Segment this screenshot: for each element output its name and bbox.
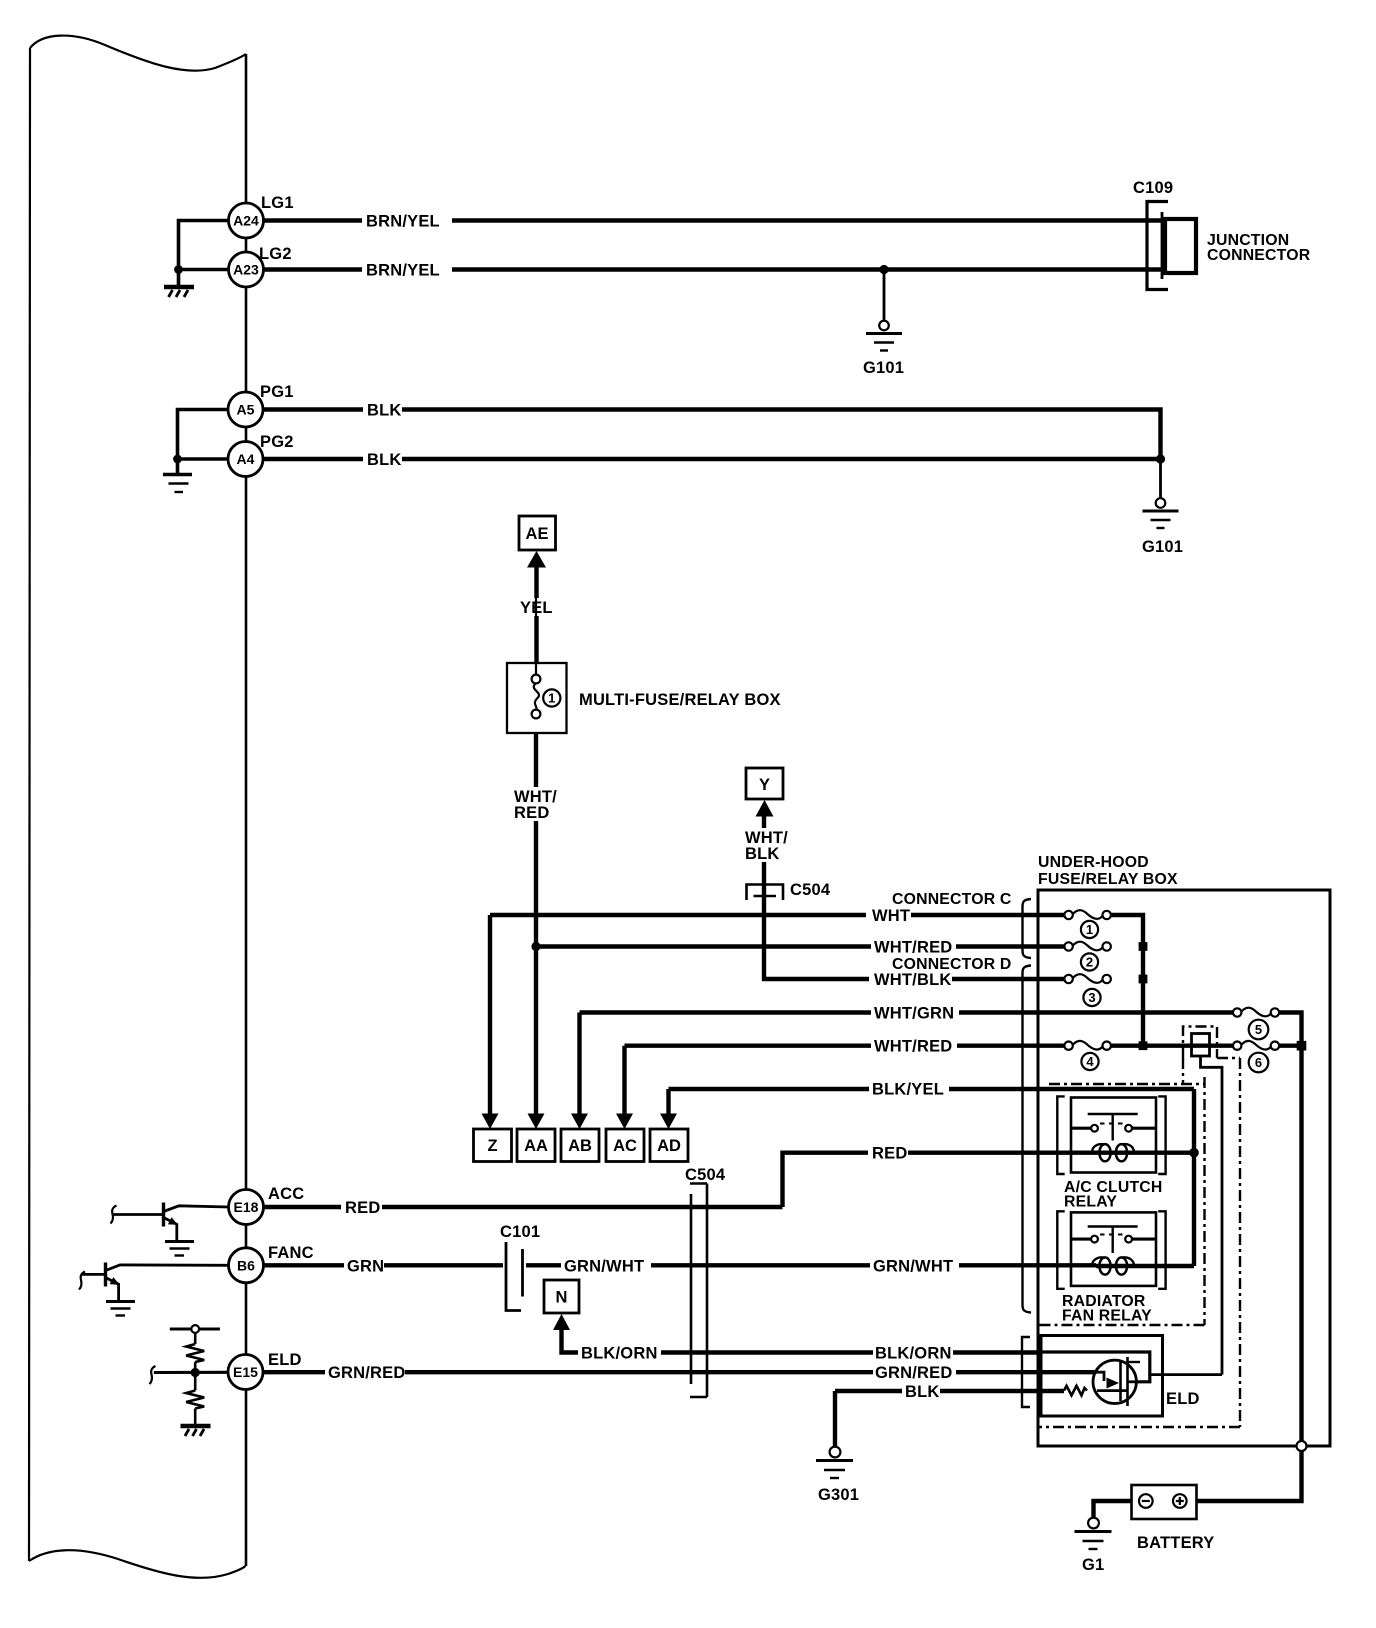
svg-text:GRN/RED: GRN/RED [875,1364,953,1382]
svg-text:GRN/WHT: GRN/WHT [564,1257,644,1275]
battery [1132,1485,1215,1552]
resistor chain (ELD sense) [170,1325,220,1424]
svg-text:G1: G1 [1082,1556,1104,1574]
svg-text:C109: C109 [1133,179,1173,197]
svg-text:1: 1 [1086,922,1093,937]
under-hood fuse/relay box [1038,890,1330,1446]
wire BRN/YEL (A23 row) [264,267,1166,271]
circled 2 [1081,953,1098,970]
svg-text:ELD: ELD [1166,1390,1200,1408]
connector A24 [229,203,264,238]
A/C relay coil [1092,1144,1194,1161]
ELD internal loop [1041,1352,1150,1382]
svg-text:Z: Z [487,1137,497,1155]
junction dot A23 stub [174,265,183,274]
junction connector C109 [1133,179,1311,290]
junction dot (resistor/E15 row) [191,1368,200,1377]
svg-text:PG2: PG2 [260,433,294,451]
svg-text:BLK: BLK [745,845,780,863]
svg-text:GRN/RED: GRN/RED [328,1364,406,1382]
bracket connector D [1023,966,1032,1313]
fuse 1 [1064,910,1111,919]
svg-text:G301: G301 [818,1486,859,1504]
connector E18 [229,1190,264,1225]
wire WHT down to Z [488,915,492,1114]
svg-text:G101: G101 [1142,538,1183,556]
fuse bus [1111,915,1143,1046]
svg-text:RED: RED [872,1145,907,1163]
connector box AA [517,1129,555,1162]
svg-text:E18: E18 [234,1199,259,1215]
svg-text:A23: A23 [233,262,259,278]
junction dot (A23 row to G101) [879,265,888,274]
svg-text:RED: RED [514,804,549,822]
svg-text:2: 2 [1086,955,1093,970]
svg-text:B6: B6 [237,1257,255,1273]
wire to ground G101 right [1159,459,1162,498]
wire BLK/YEL (row 6) [669,1087,1195,1091]
connector B6 [229,1248,264,1283]
svg-text:BLK: BLK [367,402,402,420]
connector box AB [561,1129,599,1162]
radiator fan relay left bracket [1057,1211,1064,1289]
svg-text:BATTERY: BATTERY [1137,1534,1214,1552]
wire battery positive [1197,1451,1302,1501]
bracket ELD connector [1022,1337,1030,1407]
ELD unit box [1041,1336,1163,1417]
junction dot A4 stub [173,455,182,464]
circled 4 [1081,1053,1098,1070]
dash-dot relay enclosure [1049,1083,1205,1085]
torn harness sheet edge [29,36,246,1578]
wire WHT/GRN (row 4) [580,1010,1234,1014]
svg-text:ACC: ACC [268,1185,304,1203]
connector A5 [228,392,263,427]
fan relay contact [1071,1227,1156,1254]
svg-text:1: 1 [548,691,555,706]
circled 1 (multi-fuse) [543,689,560,706]
inline connector C504 (upper) [747,881,831,900]
svg-text:UNDER-HOOD: UNDER-HOOD [1038,854,1149,871]
circled 1 [1081,921,1098,938]
wire ground stub A5/A4 [178,410,229,474]
junction dot bus/fuse3 [1139,975,1148,984]
small relay element [1192,1034,1210,1057]
svg-text:LG1: LG1 [261,194,294,212]
junction dot bus/WHT-RED row [1139,1041,1148,1050]
svg-text:BLK: BLK [367,451,402,469]
fuse symbol 1 (multi-fuse box) [532,566,541,718]
earth ground (A4) [163,475,192,493]
svg-text:AB: AB [568,1137,592,1155]
transistor Q2 (FANC driver) [79,1263,229,1301]
svg-text:G101: G101 [863,359,904,377]
ground G101 (right) [1142,498,1183,556]
junction dot (WHT/RED row) [531,942,540,951]
svg-text:N: N [556,1289,568,1307]
svg-text:E15: E15 [233,1364,258,1380]
wire RED (E18 row) [264,1205,783,1209]
junction dot (A4 row to G101) [1156,454,1165,463]
svg-text:BLK: BLK [905,1383,940,1401]
svg-text:GRN: GRN [347,1257,384,1275]
ELD mosfet [1096,1357,1140,1406]
A/C relay contact [1071,1114,1156,1141]
wire RED (row 7, to relay coil) [783,1153,1097,1207]
wire WHT/BLK (to Y) [764,815,869,979]
wire YEL [534,566,538,663]
junction dot (right bus) [1297,1041,1307,1051]
A/C clutch relay box [1071,1098,1156,1173]
arrow to AD [660,1114,677,1130]
svg-text:RELAY: RELAY [1064,1194,1117,1211]
wire GRN/WHT [526,1263,1096,1267]
transistor Q1 (ACC driver) [111,1203,229,1241]
chassis ground (resistor chain) [181,1426,211,1436]
earth ground (Q2) [106,1302,135,1316]
svg-text:WHT/BLK: WHT/BLK [874,971,951,989]
dash-dot ELD enclosure [1239,1058,1241,1427]
connector A23 [229,252,264,287]
svg-text:BRN/YEL: BRN/YEL [366,262,440,280]
wire BLK/YEL vertical to relay coils [1192,1089,1196,1266]
inline connector C504 (lower) [685,1166,726,1397]
wire BLK/ORN (to N) [562,1329,1042,1353]
connector box AD [650,1129,688,1162]
svg-text:WHT/GRN: WHT/GRN [874,1005,954,1023]
wire small relay to ELD [1201,1056,1223,1375]
svg-text:ELD: ELD [268,1351,302,1369]
wire WHT/RED (from multi-fuse down) [534,733,538,1114]
arrow to AA [528,1114,545,1130]
fuse 3 [1064,974,1111,983]
svg-text:BLK/ORN: BLK/ORN [581,1345,658,1363]
svg-text:A24: A24 [233,213,259,229]
wire ELD output [1150,1373,1222,1376]
junction dot bus/fuse2 [1139,942,1148,951]
connector box Y [746,768,783,799]
ELD resistor [1064,1386,1087,1396]
svg-text:BRN/YEL: BRN/YEL [366,213,440,231]
wire BLK (A4 row) [263,457,1161,461]
arrow to Z [482,1114,499,1130]
multi-fuse/relay box [507,663,567,733]
ground G101 (left) [863,321,904,377]
wire GRN (B6 row) [264,1263,504,1267]
wire fuse6 to right bus [1279,1043,1301,1047]
arrow to N [553,1314,570,1330]
connector box N [544,1280,579,1313]
arrow to AB [571,1114,588,1130]
wire BLK (A5 row) [263,410,1161,460]
wire trunk (control module edge) [245,54,248,1566]
svg-text:3: 3 [1088,990,1095,1005]
svg-text:A4: A4 [237,451,255,467]
svg-text:C504: C504 [685,1166,726,1184]
wire WHT/BLK (row 3) [952,977,1065,981]
circled 5 [1249,1020,1269,1040]
small relay (dash-dot enclosure) [1183,1027,1217,1059]
wire to ground G301 [833,1391,837,1447]
connector box AC [606,1129,644,1162]
chassis ground (A23) [164,287,194,297]
svg-text:CONNECTOR: CONNECTOR [1207,247,1311,264]
svg-text:A5: A5 [237,402,255,418]
radiator fan relay right bracket [1158,1211,1165,1289]
svg-text:AD: AD [657,1137,681,1155]
svg-text:WHT: WHT [872,907,910,925]
wire to ground G101 [883,270,886,322]
ground G301 [816,1447,859,1504]
arrow to Y [756,800,774,817]
svg-text:CONNECTOR D: CONNECTOR D [892,956,1012,973]
connector box AE [519,516,556,550]
wire battery negative [1094,1501,1132,1518]
arrow to AC [616,1114,633,1130]
svg-text:AC: AC [613,1137,637,1155]
connector E15 [228,1355,263,1390]
svg-text:LG2: LG2 [259,245,292,263]
svg-text:6: 6 [1255,1055,1262,1070]
circled 3 [1083,989,1100,1006]
svg-text:WHT/RED: WHT/RED [874,1038,952,1056]
svg-text:BLK/YEL: BLK/YEL [872,1081,944,1099]
wire GRN/RED (E15 row) [263,1370,1100,1374]
wire WHT/RED fuse4 to fuse6 [1111,1043,1234,1047]
svg-text:GRN/WHT: GRN/WHT [873,1257,953,1275]
wire WHT/RED down to AC [622,1046,626,1114]
wire WHT/GRN down to AB [577,1013,581,1115]
fuse 4 [1064,1041,1111,1050]
wire ground stub A24/A23 [179,221,230,286]
svg-text:BLK/ORN: BLK/ORN [875,1345,952,1363]
ground G1 [1075,1518,1112,1574]
svg-text:WHT/RED: WHT/RED [874,939,952,957]
terminal circle (box bottom) [1297,1441,1307,1451]
inline connector C101 [500,1223,540,1311]
fan relay coil [1092,1257,1194,1274]
svg-text:AE: AE [526,525,549,543]
arrow to AE [527,551,546,568]
svg-text:Y: Y [759,776,770,794]
fuse 6 [1233,1041,1279,1050]
svg-text:RED: RED [345,1199,380,1217]
wire BLK (G301 row) [835,1389,1064,1393]
svg-text:CONNECTOR C: CONNECTOR C [892,891,1012,908]
wire E15 stub left [154,1371,228,1374]
fuse 5 [1233,1008,1279,1017]
wire WHT/RED (row 2) [536,944,1065,948]
svg-text:4: 4 [1086,1054,1094,1069]
svg-text:PG1: PG1 [260,383,294,401]
wire BLK/YEL down to AD [666,1089,670,1114]
connector box Z [474,1129,512,1162]
wire fuse5 to right bus [1279,1013,1301,1442]
bracket connector C [1023,899,1032,958]
wire WHT (row 1) [490,913,1065,917]
junction dot (A/C coil) [1189,1148,1199,1158]
svg-text:FANC: FANC [268,1244,314,1262]
connector A4 [228,442,263,477]
A/C clutch relay right bracket [1158,1096,1165,1174]
radiator fan relay box [1071,1212,1156,1286]
svg-text:5: 5 [1255,1022,1262,1037]
earth ground (Q1) [165,1242,194,1256]
wire BRN/YEL (A24 row) [264,218,1166,222]
svg-text:C504: C504 [790,881,831,899]
svg-text:AA: AA [524,1137,548,1155]
svg-text:FUSE/RELAY BOX: FUSE/RELAY BOX [1038,871,1178,888]
ELD sensor circle [1093,1360,1136,1403]
svg-text:FAN RELAY: FAN RELAY [1062,1308,1152,1325]
circled 6 [1249,1053,1269,1073]
svg-text:C101: C101 [500,1223,540,1241]
wire WHT/RED (row 5) [625,1043,1065,1047]
A/C clutch relay left bracket [1057,1096,1064,1174]
fuse 2 [1064,942,1111,951]
svg-text:MULTI-FUSE/RELAY BOX: MULTI-FUSE/RELAY BOX [579,691,781,709]
